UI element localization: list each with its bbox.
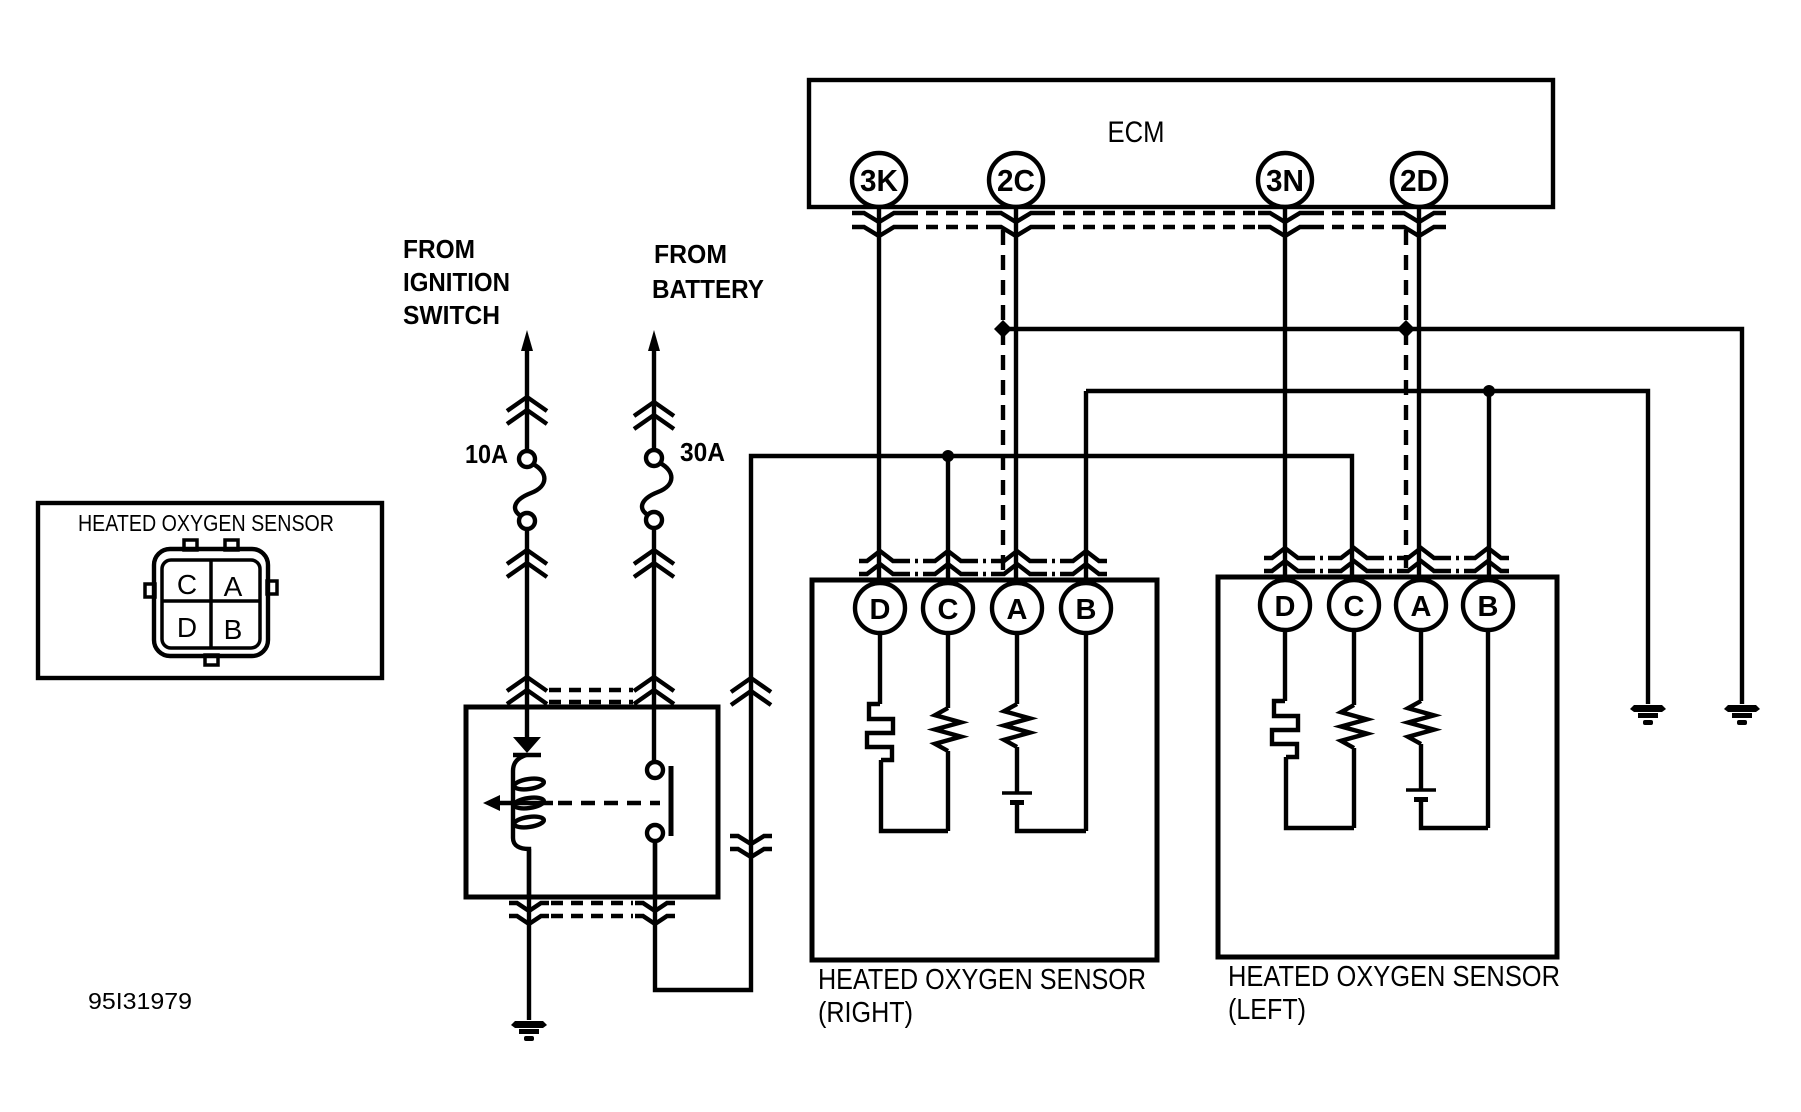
relay dashed actuator link	[558, 801, 660, 805]
svg-text:10A: 10A	[465, 439, 508, 469]
svg-text:ECM: ECM	[1108, 116, 1165, 149]
inline connector chevrons on feed wire lower	[730, 836, 772, 857]
ground wire net B horizontal	[1086, 391, 1648, 704]
ECM pin 3N	[1258, 153, 1312, 207]
connector chevrons above LEFT sensor pin D	[1264, 548, 1306, 571]
svg-text:IGNITION: IGNITION	[403, 267, 510, 297]
dash-dot bus above LEFT sensor	[1306, 558, 1467, 571]
connector chevrons below relay left	[509, 903, 549, 924]
LEFT sensor pin A	[1396, 580, 1446, 630]
LEFT sensor resistor 2	[1408, 630, 1434, 790]
connector chevrons above RIGHT sensor pin B	[1065, 551, 1107, 574]
connector chevrons on battery wire	[634, 402, 674, 429]
wire ECM 2D to left sensor pin A	[1417, 207, 1421, 581]
connector chevrons above LEFT sensor pin A	[1400, 548, 1442, 571]
wire relay coil to ground	[527, 849, 531, 1020]
ground wire net A horizontal	[1003, 329, 1742, 704]
LEFT sensor heater element	[1272, 630, 1354, 828]
relay coil	[513, 755, 529, 897]
svg-text:B: B	[224, 614, 243, 645]
svg-text:FROM: FROM	[403, 234, 475, 264]
RIGHT sensor resistor 2	[1004, 633, 1030, 793]
connector chevrons below relay right	[635, 903, 675, 924]
svg-text:3K: 3K	[860, 163, 899, 198]
RIGHT sensor resistor 1	[935, 633, 961, 831]
connector chevrons below fuse F1	[507, 550, 547, 577]
wire ECM 3N to left sensor pin D	[1283, 207, 1287, 581]
dashed shield wire from ECM 2C	[1001, 230, 1005, 571]
svg-text:A: A	[224, 571, 243, 602]
wire ECM 2C to right sensor pin A	[1014, 207, 1018, 584]
svg-text:HEATED OXYGEN SENSOR: HEATED OXYGEN SENSOR	[818, 964, 1146, 996]
legend box	[38, 503, 382, 678]
ECM pin 3K	[852, 153, 906, 207]
svg-text:C: C	[177, 569, 197, 600]
svg-text:(RIGHT): (RIGHT)	[818, 997, 913, 1029]
wire heater feed down to left sensor pin C	[946, 456, 950, 584]
ignition feed wire arrow up	[525, 340, 529, 451]
svg-text:95I31979: 95I31979	[88, 988, 192, 1014]
LEFT sensor cell	[1406, 790, 1488, 828]
connector chevrons below ECM pin 3N	[1258, 213, 1312, 236]
svg-text:D: D	[870, 594, 891, 626]
wire relay bottom contact down	[653, 841, 657, 897]
RIGHT sensor cell	[1002, 793, 1086, 831]
wire net B down to right sensor pin B	[1487, 391, 1491, 581]
junction diamond on 2D shield	[1397, 320, 1415, 338]
ECM U1 box	[809, 80, 1553, 207]
RIGHT sensor pin B	[1061, 583, 1111, 633]
wire ECM 3K to right sensor pin D	[877, 207, 881, 584]
relay switch contact bar	[669, 766, 674, 836]
svg-text:2D: 2D	[1400, 163, 1438, 198]
connector chevrons above relay left	[507, 677, 547, 704]
connector chevrons on ignition wire	[507, 397, 547, 424]
connector chevrons above RIGHT sensor pin D	[859, 551, 901, 574]
relay diode	[513, 737, 541, 753]
connector face icon	[145, 540, 277, 665]
RIGHT sensor pin A	[992, 583, 1042, 633]
connector chevrons above RIGHT sensor pin C	[927, 551, 969, 574]
relay actuating arrow	[497, 801, 553, 805]
heater feed wire from relay to sensors	[655, 456, 1352, 990]
dashed connector bus below ECM row 2	[906, 225, 1392, 229]
heated oxygen sensor (LEFT) box	[1218, 577, 1557, 957]
LEFT sensor pin D	[1260, 580, 1310, 630]
svg-text:(LEFT): (LEFT)	[1228, 994, 1306, 1026]
fuse F2 30A	[646, 450, 662, 466]
svg-text:BATTERY: BATTERY	[652, 274, 764, 304]
relay K1 box	[466, 707, 718, 897]
connector chevrons below ECM pin 3K	[852, 213, 906, 236]
svg-text:SWITCH: SWITCH	[403, 300, 500, 330]
junction diamond on 2C shield	[994, 320, 1012, 338]
svg-text:HEATED OXYGEN SENSOR: HEATED OXYGEN SENSOR	[78, 510, 334, 536]
LEFT sensor pin C	[1329, 580, 1379, 630]
connector chevrons below ECM pin 2D	[1392, 213, 1446, 236]
battery feed wire arrow up	[652, 340, 656, 450]
svg-text:2C: 2C	[997, 163, 1035, 198]
inline connector chevrons on feed wire upper	[731, 678, 771, 705]
svg-text:FROM: FROM	[654, 239, 727, 269]
connector chevrons above RIGHT sensor pin A	[996, 551, 1038, 574]
ground symbol below relay	[511, 1021, 547, 1041]
LEFT sensor resistor 1	[1341, 630, 1367, 828]
connector chevrons below ECM pin 2C	[989, 213, 1043, 236]
relay switch bottom contact	[647, 825, 663, 841]
wire fuse F1 to relay	[525, 529, 529, 739]
connector chevrons above LEFT sensor pin B	[1467, 548, 1509, 571]
LEFT sensor pin B	[1463, 580, 1513, 630]
dashed shield wire from ECM 2D	[1404, 230, 1408, 568]
RIGHT sensor pin C	[923, 583, 973, 633]
dashed connector bus below relay	[551, 903, 633, 916]
wire net B down to left sensor pin B	[1084, 391, 1088, 584]
LEFT sensor pin B wire	[1486, 630, 1490, 828]
wire fuse F2 to relay switch	[652, 528, 656, 762]
RIGHT sensor pin B wire	[1084, 633, 1088, 831]
svg-text:C: C	[1344, 591, 1365, 623]
dash-dot bus above RIGHT sensor	[901, 561, 1065, 574]
dashed connector bus below ECM row 1	[906, 211, 1392, 215]
dashed connector bus above relay	[549, 690, 633, 702]
connector chevrons above LEFT sensor pin C	[1333, 548, 1375, 571]
svg-text:B: B	[1478, 591, 1499, 623]
svg-text:30A: 30A	[680, 437, 725, 467]
heated oxygen sensor (RIGHT) box	[812, 580, 1157, 960]
svg-text:C: C	[938, 594, 959, 626]
connector chevrons above relay right	[634, 677, 674, 704]
ground symbol right inner	[1630, 705, 1666, 725]
RIGHT sensor heater element	[867, 633, 948, 831]
ground symbol right outer	[1724, 705, 1760, 725]
svg-text:D: D	[1275, 591, 1296, 623]
svg-text:D: D	[177, 612, 197, 643]
ECM pin 2C	[989, 153, 1043, 207]
svg-text:A: A	[1007, 594, 1028, 626]
junction dot heater feed / left sensor pin C	[942, 450, 954, 462]
svg-text:B: B	[1076, 594, 1097, 626]
junction dot net B / right sensor pin B	[1483, 385, 1495, 397]
relay switch top contact	[647, 762, 663, 778]
connector chevrons below fuse F2	[634, 550, 674, 577]
fuse F1 10A	[519, 451, 535, 467]
svg-text:A: A	[1411, 591, 1432, 623]
svg-text:3N: 3N	[1266, 163, 1304, 198]
RIGHT sensor pin D	[855, 583, 905, 633]
ECM pin 2D	[1392, 153, 1446, 207]
svg-text:HEATED OXYGEN SENSOR: HEATED OXYGEN SENSOR	[1228, 961, 1560, 993]
